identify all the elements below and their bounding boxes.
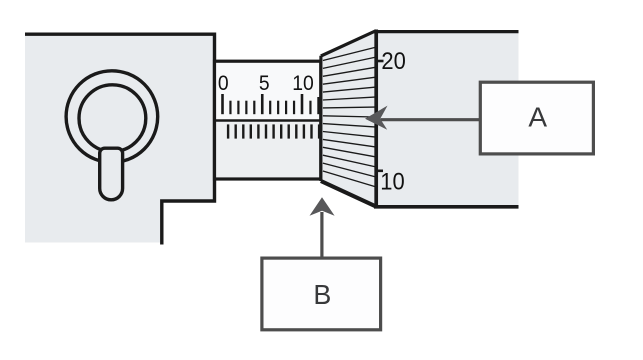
svg-text:0: 0	[218, 71, 229, 95]
svg-text:5: 5	[259, 71, 270, 95]
svg-text:20: 20	[381, 47, 405, 74]
svg-text:B: B	[313, 278, 331, 310]
svg-text:10: 10	[380, 168, 404, 195]
svg-text:A: A	[528, 102, 547, 133]
svg-text:10: 10	[292, 71, 314, 95]
